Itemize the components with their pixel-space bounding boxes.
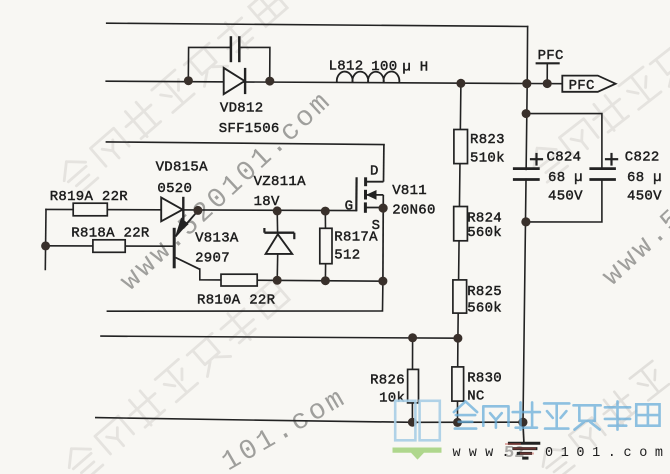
node source return junction	[378, 277, 387, 286]
wire main AC line	[106, 81, 562, 84]
node R825/R830 junction	[453, 334, 462, 343]
svg-text:VD815A: VD815A	[156, 160, 209, 176]
svg-text:68 µ: 68 µ	[627, 170, 662, 186]
svg-text:R810A 22R: R810A 22R	[197, 293, 276, 309]
svg-text:R830: R830	[467, 371, 502, 387]
svg-text:450V: 450V	[548, 189, 583, 205]
wire R826 leads	[412, 338, 414, 370]
svg-text:100: 100	[371, 59, 397, 75]
svg-text:450V: 450V	[627, 189, 662, 205]
blue site name (hand-drawn hanzi)	[454, 401, 660, 429]
diode VD815A	[156, 160, 209, 222]
node V811 source pin junction	[379, 204, 388, 213]
wire main vertical right (top line down to ground node)	[523, 27, 528, 423]
resistor R818A	[93, 240, 125, 253]
svg-text:R819A 22R: R819A 22R	[50, 189, 129, 205]
svg-text:510k: 510k	[470, 151, 505, 167]
svg-text:V811: V811	[392, 183, 427, 199]
watermark hanzi tile right	[526, 44, 670, 183]
node C824/C822 negative junction	[521, 217, 530, 226]
wire cap top junction to C822	[526, 114, 602, 168]
resistor R823	[454, 130, 468, 164]
svg-text:PFC: PFC	[569, 78, 595, 94]
resistor R825	[453, 280, 467, 313]
node R830 bottom junction	[453, 418, 462, 427]
node VZ811A cathode junction	[273, 206, 282, 215]
svg-text:512: 512	[334, 248, 360, 264]
node R818A left junction	[41, 241, 50, 250]
svg-text:G: G	[345, 199, 354, 215]
svg-text:VZ811A: VZ811A	[254, 174, 307, 190]
svg-text:V813A: V813A	[195, 231, 239, 247]
wire lower bus B	[101, 336, 458, 338]
svg-text:R818A 22R: R818A 22R	[71, 225, 150, 241]
svg-text:C822: C822	[625, 149, 660, 165]
watermark hanzi tile bottom-right (darker, behind blue text)	[535, 361, 670, 474]
svg-text:VD812: VD812	[220, 100, 264, 116]
site logo book icon	[393, 401, 442, 460]
node VD815A cathode / V813A emitter junction	[193, 206, 202, 215]
node R817A bottom junction	[321, 276, 330, 285]
wire C822 bottom to junction	[526, 181, 602, 222]
node R817A top junction	[321, 207, 330, 216]
svg-text:0520: 0520	[157, 181, 192, 197]
wire R818A to base	[46, 245, 174, 247]
watermark hanzi tile bottom-left	[61, 280, 290, 474]
ground	[508, 422, 540, 458]
node PFC connector tap	[543, 79, 552, 88]
wire R823 column	[458, 83, 461, 338]
PFC tick underline	[536, 62, 560, 64]
svg-text:www.: www.	[453, 446, 518, 461]
svg-text:L812: L812	[329, 59, 364, 75]
capacitor C824	[513, 149, 583, 204]
wire drain bus	[106, 142, 384, 145]
wire bypass-cap branch	[188, 47, 230, 80]
resistor R817A	[320, 228, 332, 263]
svg-text:µ H: µ H	[402, 59, 428, 75]
resistor R824	[454, 207, 468, 241]
node L812 output / R823 top junction	[456, 79, 465, 88]
red watermark digits over ground	[505, 444, 536, 454]
svg-text:NC: NC	[467, 389, 484, 405]
zener VZ811A	[254, 174, 307, 280]
svg-text:C824: C824	[547, 149, 582, 165]
resistor R830	[452, 367, 464, 401]
capacitor C812 bypass plates	[231, 36, 239, 62]
node PFC rail junction	[522, 79, 531, 88]
node C824/C822 positive junction	[522, 109, 531, 118]
svg-text:10k: 10k	[379, 390, 405, 406]
node R826 bottom junction	[408, 418, 417, 427]
svg-text:560k: 560k	[467, 225, 502, 241]
MOSFET V811	[345, 145, 436, 282]
svg-text:R823: R823	[470, 132, 505, 148]
node VD812 cathode / bypass-cap right junction	[265, 77, 274, 86]
node R826 top junction	[408, 333, 417, 342]
node ground junction	[518, 418, 527, 427]
capacitor C822	[589, 149, 662, 204]
svg-text:R826: R826	[370, 372, 405, 388]
wire PFC tick	[546, 63, 548, 83]
node VD812 anode / bypass-cap left junction	[184, 76, 193, 85]
wire R830 leads	[457, 338, 459, 367]
svg-text:20N60: 20N60	[392, 203, 436, 219]
resistor R810A	[221, 274, 257, 286]
wire gate line	[46, 209, 356, 210]
svg-text:D: D	[370, 164, 379, 180]
transistor V813A (PNP 2907)	[174, 211, 239, 269]
svg-text:PFC: PFC	[538, 48, 564, 64]
svg-text:R825: R825	[467, 284, 502, 300]
wire top bus	[107, 23, 528, 26]
wire bottom bus	[96, 418, 523, 423]
resistor R819A	[73, 203, 107, 216]
resistor R826	[408, 369, 419, 403]
svg-text:0101.com: 0101.com	[545, 446, 670, 461]
wire lower bus A	[107, 281, 383, 311]
inductor L812	[337, 72, 400, 83]
wire left stub column	[44, 209, 47, 269]
svg-text:560k: 560k	[467, 300, 502, 316]
svg-text:2907: 2907	[195, 251, 230, 267]
wire source bottom line	[200, 269, 383, 281]
svg-text:SFF1506: SFF1506	[219, 121, 280, 137]
diode VD812	[219, 68, 280, 137]
node VZ811A anode junction	[273, 276, 282, 285]
svg-text:S: S	[372, 218, 381, 234]
PFC output arrow	[562, 76, 615, 92]
watermark diagonal hanzi tile top-left	[56, 0, 288, 196]
svg-text:68 µ: 68 µ	[548, 170, 583, 186]
